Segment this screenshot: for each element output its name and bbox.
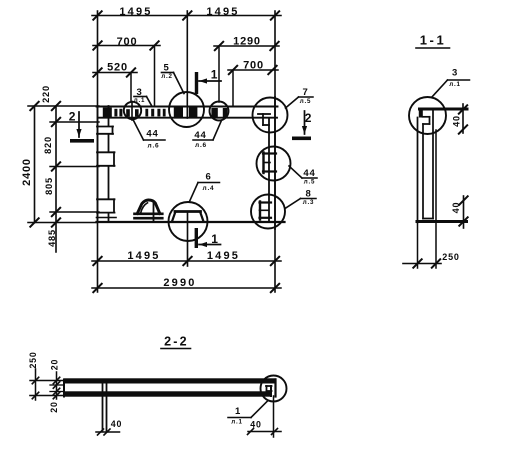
svg-text:3: 3 <box>452 67 458 78</box>
section 1-1 inner line 3 <box>432 110 434 219</box>
panel top band bottom line <box>99 117 277 119</box>
dimension 520 line <box>93 68 137 76</box>
detail circle small (219,111) <box>210 102 229 121</box>
section 1-1 step lines <box>423 117 430 124</box>
section mark 2 right: label 2 <box>305 111 312 125</box>
svg-text:700: 700 <box>117 36 138 48</box>
dimension text 485 <box>47 229 57 247</box>
svg-text:40: 40 <box>250 420 261 430</box>
band mark a <box>114 109 117 117</box>
dimension 1290 line <box>214 42 279 50</box>
svg-text:520: 520 <box>107 61 128 73</box>
left extension y=166.5 <box>50 166 99 168</box>
svg-text:1-1: 1-1 <box>420 33 447 48</box>
bracket inside bottom circle <box>260 202 272 220</box>
svg-text:1: 1 <box>211 232 218 246</box>
dimension 700 top-right line <box>228 66 278 74</box>
extension line x=154.5 (700 left) <box>154 46 156 107</box>
extension line x=219 (1290) <box>218 46 220 102</box>
dimension text 1290 <box>233 35 261 47</box>
section 2-2 bottom band <box>64 391 273 396</box>
section 2-2 right dim 40 <box>248 420 282 435</box>
panel left inner line seg1 <box>108 106 110 126</box>
svg-text:л.3: л.3 <box>303 199 315 206</box>
anchor trapezoid inside bottom-centre circle <box>172 212 204 222</box>
svg-text:1: 1 <box>235 406 241 417</box>
svg-text:40: 40 <box>452 115 462 127</box>
svg-text:220: 220 <box>41 85 51 103</box>
section 1-1 step dark bar <box>419 109 423 118</box>
band heavy mark right of centre <box>189 107 198 118</box>
detail circle right bottom (268,211.5) <box>251 195 285 229</box>
dimension text 805 <box>44 177 54 195</box>
svg-text:л.4: л.4 <box>203 185 215 192</box>
band corner dark block <box>103 108 112 118</box>
section mark 2 left: label 2 <box>69 109 76 123</box>
panel bottom face line <box>97 221 285 223</box>
section 2-2 ext y=391.5 <box>50 391 64 393</box>
extension line mid x=187.5 lower <box>187 212 189 266</box>
svg-text:1495: 1495 <box>207 250 240 262</box>
callout 6/l.4 <box>190 171 220 201</box>
dimension text 700 top-right <box>243 59 264 71</box>
extension line x=233 (700 right) <box>232 70 234 106</box>
svg-text:40: 40 <box>451 202 461 214</box>
panel left inner line seg3 <box>108 167 110 199</box>
panel top face line <box>97 106 278 108</box>
svg-text:44: 44 <box>146 128 158 139</box>
band mark d <box>135 109 139 117</box>
section 1-1 bottom flange <box>417 220 467 223</box>
svg-text:805: 805 <box>44 177 54 195</box>
callout 5/l.2 <box>161 62 184 93</box>
svg-text:1495: 1495 <box>119 6 152 18</box>
section 2-2 dim 20 chain <box>53 372 59 399</box>
svg-text:1495: 1495 <box>127 250 160 262</box>
band mark g <box>157 109 160 117</box>
svg-text:20: 20 <box>49 401 59 412</box>
section mark 2 left: thick bar <box>70 139 94 143</box>
section 2-2 ext y=380.5 <box>30 380 64 382</box>
dimension text 1495 top-left <box>119 6 152 18</box>
svg-text:20: 20 <box>50 359 60 370</box>
svg-text:700: 700 <box>243 59 264 71</box>
svg-text:2400: 2400 <box>21 158 33 186</box>
svg-text:1: 1 <box>211 67 218 81</box>
extension line left x=97.5 <box>97 11 99 292</box>
section mark 1 bottom: thick bar <box>195 228 198 248</box>
left extension y=122 <box>50 121 99 123</box>
callout 7/l.5 <box>286 87 314 108</box>
detail circle top-right corner (270,115) <box>253 98 288 133</box>
band mark f <box>151 109 154 117</box>
dimension text 2400 <box>21 158 33 186</box>
section mark 1 bottom: label 1 <box>211 232 218 246</box>
section 2-2 end hook <box>266 386 272 396</box>
section 2-2 title <box>161 335 191 349</box>
dimension text 220 <box>41 85 51 103</box>
section 1-1 left face <box>417 118 419 223</box>
section 1-1 left extension <box>417 223 419 269</box>
dimension text 820 <box>43 136 53 154</box>
left chain dimension line <box>52 102 60 252</box>
left edge block 3 <box>97 199 115 212</box>
section 2-2 end detail circle <box>261 376 287 402</box>
dimension 700 top-left line <box>93 41 160 49</box>
section 1-1 dim 40 bottom <box>451 196 467 228</box>
left extension y=222.5 <box>28 222 97 224</box>
lifting loop dome <box>135 200 163 222</box>
section 1-1 title <box>416 33 450 48</box>
section 1-1 inner bottom connector <box>423 218 433 220</box>
svg-text:1495: 1495 <box>206 6 239 18</box>
svg-text:820: 820 <box>43 136 53 154</box>
panel bottom-left double line <box>97 217 117 219</box>
section 2-2 rib dim 40 <box>96 419 122 435</box>
dimension text 700 top-left <box>117 36 138 48</box>
svg-text:л.5: л.5 <box>304 179 316 186</box>
callout 1/l.1 in section 2-2 <box>228 401 268 426</box>
svg-text:2: 2 <box>69 109 76 123</box>
left edge block 1 <box>97 127 113 134</box>
left extension y=106 <box>28 105 99 107</box>
section 1-1 dim 40 top <box>452 104 467 134</box>
panel left inner line seg4 <box>108 214 110 223</box>
band mark c <box>126 109 130 117</box>
left extension y=212 <box>50 211 99 213</box>
dimension text 1495 top-right <box>206 6 239 18</box>
band mark j <box>223 108 228 117</box>
svg-text:л.6: л.6 <box>148 143 160 150</box>
detail circle big top (186.5,109.5) <box>169 92 204 127</box>
bracket inside middle circle <box>263 153 276 174</box>
dimension 2990 line <box>92 284 281 292</box>
panel left outer face <box>97 106 99 222</box>
left edge block 2 <box>97 152 115 166</box>
svg-text:250: 250 <box>28 351 38 368</box>
svg-text:6: 6 <box>205 171 211 182</box>
section 2-2 rib <box>103 384 107 431</box>
section 2-2 dim 250 <box>28 351 39 400</box>
callout 8/l.3 <box>285 188 316 208</box>
detail circle small left (132.5,110.5) <box>124 102 141 119</box>
callout 44/l.6 first <box>134 121 166 150</box>
dimension text 1495 bottom-left <box>127 250 160 262</box>
section 2-2 top band <box>64 378 277 383</box>
band heavy mark left of centre <box>174 107 183 118</box>
section 1-1 right extension <box>435 130 437 268</box>
section mark 1 top: arrow line <box>199 78 221 83</box>
panel right inner line <box>268 118 270 222</box>
band mark h <box>163 109 166 117</box>
svg-text:250: 250 <box>442 252 459 262</box>
svg-text:40: 40 <box>111 419 122 429</box>
callout 3/l.1 <box>134 87 152 106</box>
callout 3/l.1 in section 1-1 <box>432 67 470 97</box>
panel right outer face <box>274 97 276 229</box>
svg-text:л.6: л.6 <box>195 142 207 149</box>
svg-text:л.5: л.5 <box>300 98 312 105</box>
svg-text:485: 485 <box>47 229 57 247</box>
section mark 2 left: arrow line <box>76 112 81 137</box>
dimension 2400 line <box>30 102 38 227</box>
section mark 1 top: label 1 <box>211 67 218 81</box>
extension line mid x=187.3 upper <box>186 11 188 118</box>
section mark 1 bottom: arrow line <box>199 242 221 247</box>
section mark 2 right: thick bar <box>292 137 311 141</box>
section 1-1 top flange <box>420 108 468 111</box>
extension line right x=275 <box>274 11 276 292</box>
svg-text:2: 2 <box>305 111 312 125</box>
extension line x=131 (520) <box>130 73 132 102</box>
panel left inner line seg2 <box>108 135 110 152</box>
detail circle bottom centre (188,221.5) <box>169 202 208 241</box>
band mark b <box>119 109 122 117</box>
svg-text:1290: 1290 <box>233 35 261 47</box>
svg-text:2-2: 2-2 <box>164 335 189 349</box>
svg-text:л.1: л.1 <box>134 97 146 104</box>
section 2-2 text 20 top <box>50 359 60 370</box>
svg-text:л.1: л.1 <box>449 81 461 88</box>
section mark 2 right: arrow line <box>302 111 307 134</box>
section 2-2 left end cap <box>63 380 65 397</box>
dimension 1495 bottom-left line <box>92 257 281 265</box>
corner step detail inside circle <box>258 114 270 125</box>
dimension text 520 <box>107 61 128 73</box>
callout 44/l.5 <box>289 166 317 186</box>
section 2-2 ext y=385 <box>50 384 64 386</box>
section 1-1 inner line 2 <box>422 124 424 219</box>
callout 44/l.6 second <box>193 122 221 150</box>
leader line inside circle1 <box>131 102 133 121</box>
dimension text 1495 bottom-right <box>207 250 240 262</box>
dimension 1495 top-left line <box>92 11 281 19</box>
section 2-2 right extension <box>273 396 275 437</box>
dimension text 2990 <box>163 277 196 289</box>
section 1-1 dim 250 <box>403 252 460 267</box>
section 2-2 right end cap <box>274 380 276 397</box>
section mark 1 top: thick bar <box>195 72 198 94</box>
detail circle right middle (273.5,163.5) <box>257 147 291 181</box>
section 2-2 ext y=395.5 <box>30 395 64 397</box>
section 1-1 detail circle <box>409 97 446 134</box>
section 2-2 text 20 bottom <box>49 401 59 412</box>
band mark e <box>145 109 148 117</box>
svg-text:л.1: л.1 <box>231 419 243 426</box>
svg-text:2990: 2990 <box>163 277 196 289</box>
svg-text:л.2: л.2 <box>161 73 173 80</box>
band mark i <box>211 108 217 117</box>
